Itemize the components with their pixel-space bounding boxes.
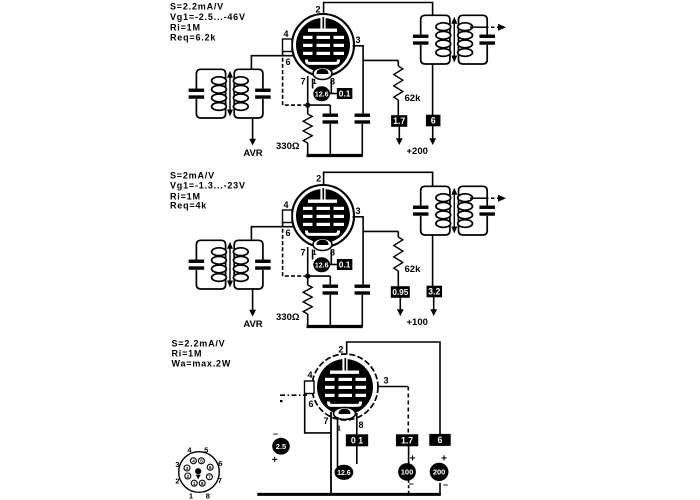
svg-text:7: 7	[208, 475, 211, 481]
svg-text:2: 2	[315, 5, 320, 15]
svg-text:2.5: 2.5	[276, 442, 286, 451]
pin 8 label (2)	[330, 248, 335, 258]
wire oval to 0.1 box (2)	[330, 264, 337, 266]
wire pin7 to cathode node	[307, 76, 309, 105]
svg-text:6: 6	[209, 465, 212, 471]
junction cathode node	[305, 103, 310, 108]
grid input dash-dot line	[280, 395, 307, 402]
330ohm label	[276, 141, 300, 152]
svg-text:0.1: 0.1	[339, 89, 351, 99]
ground bus circuit 1	[307, 154, 363, 157]
screen current box 1.7 (3)	[396, 434, 418, 446]
tube V3 (output pentode)	[312, 354, 378, 420]
svg-text:200: 200	[433, 468, 446, 477]
pin 1 label (3)	[337, 424, 341, 433]
heater voltage oval 12.6 (2)	[313, 257, 330, 272]
svg-text:6: 6	[218, 459, 222, 468]
svg-text:12.6: 12.6	[315, 91, 329, 98]
arrow to +100 (anode)	[430, 297, 437, 316]
minus label bias	[273, 429, 278, 439]
input IF transformer T3	[189, 240, 271, 289]
input IF transformer T1	[189, 69, 271, 118]
svg-text:2: 2	[338, 345, 343, 355]
svg-text:2: 2	[316, 174, 321, 184]
svg-text:12.6: 12.6	[337, 470, 351, 477]
svg-text:0.95: 0.95	[392, 288, 408, 297]
screen current box 1.7	[391, 115, 407, 127]
svg-text:4: 4	[283, 29, 288, 39]
svg-text:330Ω: 330Ω	[276, 141, 300, 152]
heater voltage oval 12.6	[313, 86, 330, 101]
anode current box 6 (3)	[429, 434, 450, 446]
svg-text:330Ω: 330Ω	[276, 312, 300, 323]
AVR label (2)	[243, 319, 262, 330]
pin 8 label	[330, 77, 335, 87]
wire 1.7 box to 100 oval	[408, 446, 410, 464]
wire cathode node to bypass cap C3	[308, 275, 331, 277]
svg-text:6: 6	[431, 116, 436, 126]
svg-text:62k: 62k	[405, 264, 422, 275]
svg-text:5: 5	[204, 446, 208, 455]
pin 4 box (shield)	[283, 39, 293, 52]
pin 2 label (2)	[316, 174, 321, 184]
wire primary bottom to 3.2 box	[432, 235, 434, 287]
62k label (2)	[405, 264, 422, 275]
svg-text:Vg1=-2.5...-46V: Vg1=-2.5...-46V	[170, 12, 246, 22]
svg-text:–: –	[273, 429, 278, 439]
screen current box 0.95	[391, 286, 410, 298]
ground bus circuit 2	[307, 325, 363, 328]
cathode bypass capacitor C1	[323, 105, 339, 155]
svg-text:8: 8	[358, 420, 363, 430]
wire cathode node to bypass cap C1	[308, 104, 331, 106]
cathode resistor 330ohm	[303, 105, 312, 155]
svg-text:8: 8	[201, 481, 204, 487]
svg-text:6: 6	[285, 57, 290, 67]
svg-text:1: 1	[189, 492, 193, 500]
pin 7 label (2)	[300, 248, 305, 258]
screen resistor 62k (2)	[394, 231, 403, 287]
heater lead pin1 (2)	[312, 250, 314, 260]
wire shield pin4 to cathode line (3)	[305, 393, 331, 433]
pin 4 label	[283, 29, 288, 39]
AVR arrow	[249, 118, 256, 146]
ground bus circuit 3	[257, 493, 441, 496]
svg-text:6: 6	[308, 399, 313, 409]
pin 3 label	[355, 35, 360, 45]
svg-text:–: –	[409, 479, 414, 489]
dashed wire 100 oval to ground bus	[408, 480, 410, 494]
parameter text block circuit 3	[172, 339, 232, 369]
heater current box 0.1 (2)	[337, 259, 353, 270]
pin 7 label	[300, 77, 305, 87]
wire screen to 62k dropper (2)	[363, 230, 398, 232]
junction cathode node (2)	[305, 274, 310, 279]
wire shield pin4 to cathode node	[283, 52, 305, 106]
svg-text:S=2.2mA/V: S=2.2mA/V	[172, 339, 226, 349]
arrow to +200 (screen)	[396, 126, 403, 145]
svg-text:Req=6.2k: Req=6.2k	[170, 33, 216, 43]
svg-text:3: 3	[355, 35, 360, 45]
screen resistor 62k	[394, 60, 403, 116]
pin 1 label (2)	[312, 248, 316, 257]
pin 8 label (3)	[358, 420, 363, 430]
svg-text:3: 3	[355, 206, 360, 216]
svg-text:7: 7	[300, 248, 305, 258]
svg-text:62k: 62k	[405, 93, 422, 104]
heater current box 0.1 (3)	[346, 434, 368, 446]
anode current box 3.2	[427, 286, 443, 298]
pin 6 label (2)	[285, 228, 290, 238]
cathode resistor 330ohm (2)	[303, 276, 312, 326]
wire primary bottom to 6 box	[432, 64, 434, 116]
plus label 100	[410, 454, 416, 465]
output arrow to next stage (2)	[470, 195, 506, 202]
pin 4 box (shield) (2)	[283, 210, 293, 223]
svg-text:AVR: AVR	[243, 148, 262, 159]
wire 200 oval to ground bus	[439, 483, 441, 495]
anode IF transformer T4	[413, 186, 495, 235]
wire pin3 screen node	[353, 46, 364, 114]
svg-text:Req=4k: Req=4k	[170, 201, 207, 211]
svg-text:6: 6	[285, 228, 290, 238]
pin 4 label (3)	[307, 370, 312, 380]
heater lead pin1	[312, 79, 314, 89]
svg-text:0.1: 0.1	[339, 260, 351, 270]
svg-text:+100: +100	[407, 317, 428, 328]
svg-text:Ri=1M: Ri=1M	[172, 349, 203, 359]
svg-text:5: 5	[200, 459, 203, 465]
svg-text:Ri=1M: Ri=1M	[170, 22, 201, 32]
output arrow to next stage	[470, 24, 506, 31]
330ohm label (2)	[276, 312, 300, 323]
svg-text:+200: +200	[407, 146, 428, 157]
svg-text:8: 8	[206, 492, 210, 500]
screen feed dashed wire	[407, 387, 409, 435]
svg-text:7: 7	[323, 416, 328, 426]
svg-text:1.7: 1.7	[393, 116, 405, 126]
svg-text:1.7: 1.7	[401, 435, 413, 445]
tube V2 (IF pentode)	[292, 185, 354, 251]
svg-text:2: 2	[186, 474, 189, 480]
wire grid (pin6) from T3 secondary	[251, 227, 294, 241]
wire 0.1 box to 12.6 oval	[356, 446, 358, 465]
wire pin7 to cathode node (2)	[307, 247, 309, 276]
cathode bypass capacitor C3	[323, 276, 339, 326]
heater lead pin1 (3)	[337, 417, 339, 467]
pin 1 label	[312, 77, 316, 86]
wire shield pin4 to cathode node (2)	[283, 223, 305, 277]
arrow to +100 (screen)	[397, 297, 404, 316]
screen bypass capacitor C4	[355, 285, 371, 327]
svg-text:100: 100	[401, 468, 414, 477]
cathode wire pin7 to ground bus	[330, 412, 332, 495]
svg-text:+: +	[272, 455, 278, 466]
svg-text:2: 2	[175, 477, 179, 486]
screen bypass capacitor C2	[355, 114, 371, 156]
svg-text:Vg1=-1.3...-23V: Vg1=-1.3...-23V	[170, 181, 246, 191]
plus label bias	[272, 455, 278, 466]
pin 4 label (2)	[283, 200, 288, 210]
heater lead pin8	[330, 79, 332, 94]
wire grid (pin6) from T1 secondary	[251, 56, 294, 70]
screen voltage oval 100	[398, 463, 416, 481]
arrow to +200 (anode)	[429, 126, 436, 145]
wire pin2 to anode transformer primary (2)	[324, 172, 433, 186]
tube V1 (IF pentode)	[292, 14, 354, 80]
parameter text block circuit 2	[170, 171, 246, 211]
socket pin labels	[175, 446, 222, 500]
svg-text:3: 3	[383, 376, 388, 386]
pin 6 label	[285, 57, 290, 67]
heater lead pin8 (2)	[330, 250, 332, 265]
pin 6 label (3)	[308, 399, 313, 409]
svg-text:1: 1	[193, 481, 196, 487]
svg-text:4: 4	[283, 200, 288, 210]
pin 3 label (2)	[355, 206, 360, 216]
plus label 200	[441, 454, 447, 465]
wire pin2 to +200 rail	[347, 342, 440, 435]
heater lead pin8 (3)	[356, 413, 358, 435]
svg-text:3: 3	[186, 466, 189, 472]
anode current box 6	[426, 115, 441, 127]
svg-text:+: +	[410, 454, 416, 465]
pin 2 label	[315, 5, 320, 15]
svg-text:7: 7	[218, 476, 222, 485]
62k label	[405, 93, 422, 104]
svg-text:4: 4	[192, 459, 195, 465]
grid bias oval 2.5	[272, 438, 290, 455]
AVR label	[243, 148, 262, 159]
pin 2 label (3)	[338, 345, 343, 355]
svg-text:–: –	[443, 480, 448, 490]
pin 4 box (shield) (3)	[305, 381, 315, 394]
svg-text:4: 4	[307, 370, 312, 380]
svg-text:12.6: 12.6	[315, 262, 329, 269]
wire oval to 0.1 box	[330, 93, 337, 95]
AVR arrow (2)	[249, 289, 256, 317]
pin 3 wire (screen)	[378, 386, 408, 388]
svg-text:0 1: 0 1	[351, 435, 363, 445]
anode voltage oval 200	[430, 463, 449, 481]
minus label 200	[443, 480, 448, 490]
svg-text:S=2.2mA/V: S=2.2mA/V	[170, 2, 224, 12]
svg-text:3: 3	[175, 460, 179, 469]
tube socket base diagram	[179, 452, 220, 493]
parameter text block circuit 1	[170, 2, 246, 43]
heater voltage oval 12.6 (3)	[335, 465, 354, 480]
svg-text:+: +	[441, 454, 447, 465]
pin 7 label (3)	[323, 416, 328, 426]
svg-text:3.2: 3.2	[428, 287, 440, 297]
wire pin3 screen node (2)	[353, 217, 364, 285]
heater current box 0.1	[337, 88, 353, 99]
minus label 100	[409, 479, 414, 489]
wire screen to 62k dropper	[363, 59, 398, 61]
+200 label	[407, 146, 428, 157]
svg-text:7: 7	[300, 77, 305, 87]
svg-text:AVR: AVR	[243, 319, 262, 330]
anode IF transformer T2	[413, 15, 495, 64]
svg-text:6: 6	[438, 435, 443, 445]
svg-text:Wa=max.2W: Wa=max.2W	[172, 359, 232, 369]
wire pin2 to anode transformer primary	[324, 3, 433, 16]
pin 3 label (3)	[383, 376, 388, 386]
svg-text:S=2mA/V: S=2mA/V	[170, 171, 215, 181]
+100 label	[407, 317, 428, 328]
